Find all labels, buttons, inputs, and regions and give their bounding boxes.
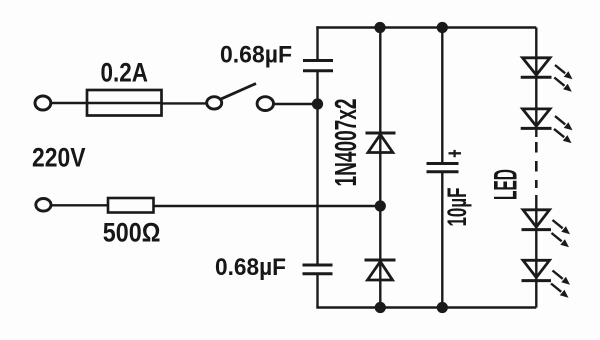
terminal J1 (AC live input, top) bbox=[35, 96, 51, 110]
capacitor C1 0.68uF top: upper lead bbox=[316, 26, 318, 60]
bottom rail wire bbox=[316, 306, 536, 308]
switch S1 throw contact bbox=[257, 97, 273, 111]
fuse F1 element wire through body bbox=[87, 102, 162, 104]
capacitor C3 lower lead to bottom rail bbox=[316, 274, 318, 308]
wire J2 to resistor bbox=[51, 204, 108, 206]
junction dot bottom rail / C2 branch bbox=[437, 302, 448, 313]
LED D4 bbox=[521, 109, 573, 143]
svg-text:1N4007x2: 1N4007x2 bbox=[328, 99, 363, 187]
LED D5 bbox=[522, 210, 571, 247]
top rail wire bbox=[316, 26, 536, 28]
svg-text:LED: LED bbox=[488, 169, 524, 200]
capacitor C1 plates bbox=[303, 61, 333, 71]
LED D6 bbox=[522, 260, 571, 297]
diode branch wire (continuous) bbox=[379, 28, 381, 308]
node A junction dot bbox=[312, 98, 323, 109]
capacitor C3 0.68uF bottom: plates bbox=[303, 265, 333, 274]
svg-text:220V: 220V bbox=[32, 143, 86, 173]
diode D1 triangle bbox=[368, 135, 393, 153]
junction dot bottom rail / diode branch bbox=[375, 302, 386, 313]
svg-text:0.68µF: 0.68µF bbox=[215, 254, 286, 281]
wire resistor to mid node (crosses left vertical, no join) bbox=[154, 205, 381, 207]
svg-text:0.68µF: 0.68µF bbox=[220, 42, 292, 69]
switch S1 lever bbox=[220, 84, 256, 100]
wire J1 to fuse bbox=[51, 102, 87, 104]
svg-text:10µF: 10µF bbox=[442, 188, 472, 227]
diode D2 triangle bbox=[368, 262, 393, 281]
diode D1 1N4007 (cathode bar) bbox=[366, 132, 396, 135]
wire switch to node A bbox=[274, 103, 318, 105]
fuse F1 body bbox=[87, 90, 162, 116]
LED branch upper wire (through D3, D4) bbox=[535, 28, 537, 138]
capacitor C2 10uF upper lead bbox=[441, 28, 443, 164]
mid node junction dot bbox=[375, 200, 386, 211]
junction dot top rail / diode branch bbox=[374, 22, 385, 33]
capacitor C2 lower lead bbox=[441, 172, 443, 308]
capacitor C2 plates bbox=[427, 164, 459, 172]
LED D3 bbox=[521, 58, 573, 92]
diode D2 1N4007 (cathode bar) bbox=[365, 259, 396, 262]
svg-text:0.2A: 0.2A bbox=[101, 58, 149, 88]
dashed wire (LED string continuation) bbox=[535, 142, 538, 188]
svg-text:500Ω: 500Ω bbox=[103, 218, 161, 248]
resistor R1 body bbox=[108, 198, 154, 213]
capacitor C2 polarity plus sign bbox=[449, 150, 462, 157]
switch S1 pole contact bbox=[207, 97, 222, 109]
wire C1 lower plate through node A down to C3 bbox=[316, 71, 318, 265]
wire fuse to switch bbox=[162, 102, 207, 104]
junction dot top rail / C2 branch bbox=[437, 22, 448, 33]
LED branch lower wire (through D5, D6) bbox=[535, 195, 537, 308]
terminal J2 (AC neutral input, bottom) bbox=[36, 199, 51, 212]
